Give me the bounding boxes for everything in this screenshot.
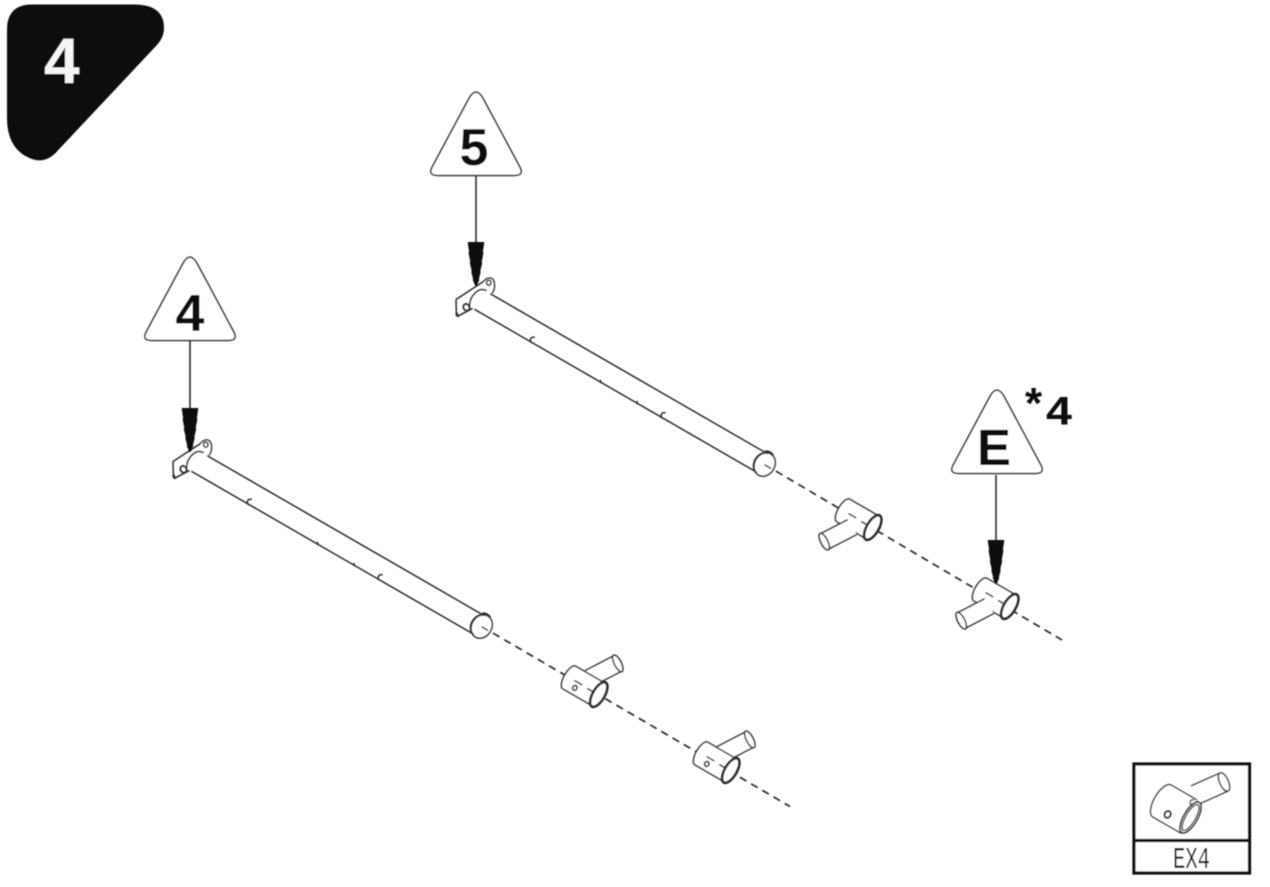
svg-text:4: 4 bbox=[44, 25, 80, 97]
svg-text:5: 5 bbox=[460, 119, 489, 177]
svg-text:*: * bbox=[1025, 379, 1043, 428]
svg-text:E: E bbox=[977, 419, 1011, 476]
svg-text:EX4: EX4 bbox=[1173, 843, 1210, 878]
svg-text:4: 4 bbox=[1046, 390, 1073, 434]
svg-text:4: 4 bbox=[176, 285, 205, 343]
